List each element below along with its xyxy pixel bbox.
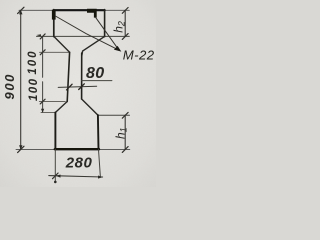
leader line to left mark [55,16,119,50]
arrow 280 left [56,175,61,178]
arrow 280 right [98,176,103,179]
svg-text:100: 100 [27,50,39,75]
section outline: top edge [54,9,105,11]
top extension line [19,9,129,11]
dimension line h2 [124,10,126,36]
tick 900 top [18,7,24,13]
arrow at extension-line end left of 100 dim [36,34,41,36]
extension line below bottom flange left [54,150,56,182]
tick 280 left [53,173,59,179]
section outline: lower-right haunch [82,99,98,115]
bottom-flange-top-right extension line (h1) [98,114,130,116]
lower-haunch-top extension line [39,100,65,102]
embedded plate mark right (M-22) [87,9,97,18]
dimension line h1 [124,115,126,149]
extension line below bottom flange right [99,150,101,178]
embedded plate mark left (M-22) [52,10,56,20]
haunch-bottom extension line [40,51,70,53]
dimension line 100/100 [42,36,44,112]
section outline: upper-right haunch [82,36,105,56]
bottom-flange-top-left extension line [41,111,56,113]
section outline: upper-left haunch [54,36,70,52]
dimension line 80 [58,86,96,87]
arrow 100 line end [41,109,44,113]
section outline: web left edge [67,52,69,101]
bottom extension line [16,148,130,150]
tick 900 bottom [18,146,24,152]
tick h2 bottom [122,34,128,40]
svg-text:900: 900 [2,73,17,100]
arrow 900 bottom [19,145,22,150]
tick h2 top [122,8,128,14]
leader arrowhead [114,46,121,52]
leader line to right mark [96,18,119,50]
tick h1 top [122,112,128,118]
tick 80 left [67,84,73,90]
end dot left extension [54,181,57,184]
section outline: bottom flange left edge [54,112,56,149]
section outline: top flange left edge [53,10,55,37]
section outline: bottom flange right edge [97,115,100,149]
dimension line 900 [20,10,22,149]
tick 100 at haunch bottom [40,50,45,55]
svg-text:280: 280 [65,155,93,172]
label shelf 80 [82,80,112,82]
section outline: bottom edge [55,148,99,150]
tick 100 at lower haunch top [40,99,45,104]
section outline: web right edge [81,53,83,99]
flange-bottom extension line [37,35,130,37]
svg-text:100: 100 [28,78,40,101]
tick h1 bottom [122,147,128,153]
svg-text:М-22: М-22 [123,47,155,62]
arrow 900 top [19,10,22,15]
tick 100 at flange bottom [40,34,45,39]
paper background [0,0,156,187]
section outline: lower-left haunch [56,102,68,113]
section outline: top flange right edge [104,10,106,37]
tick 80 right [79,84,85,90]
dimension line 280 [49,176,103,177]
svg-text:80: 80 [86,65,105,82]
